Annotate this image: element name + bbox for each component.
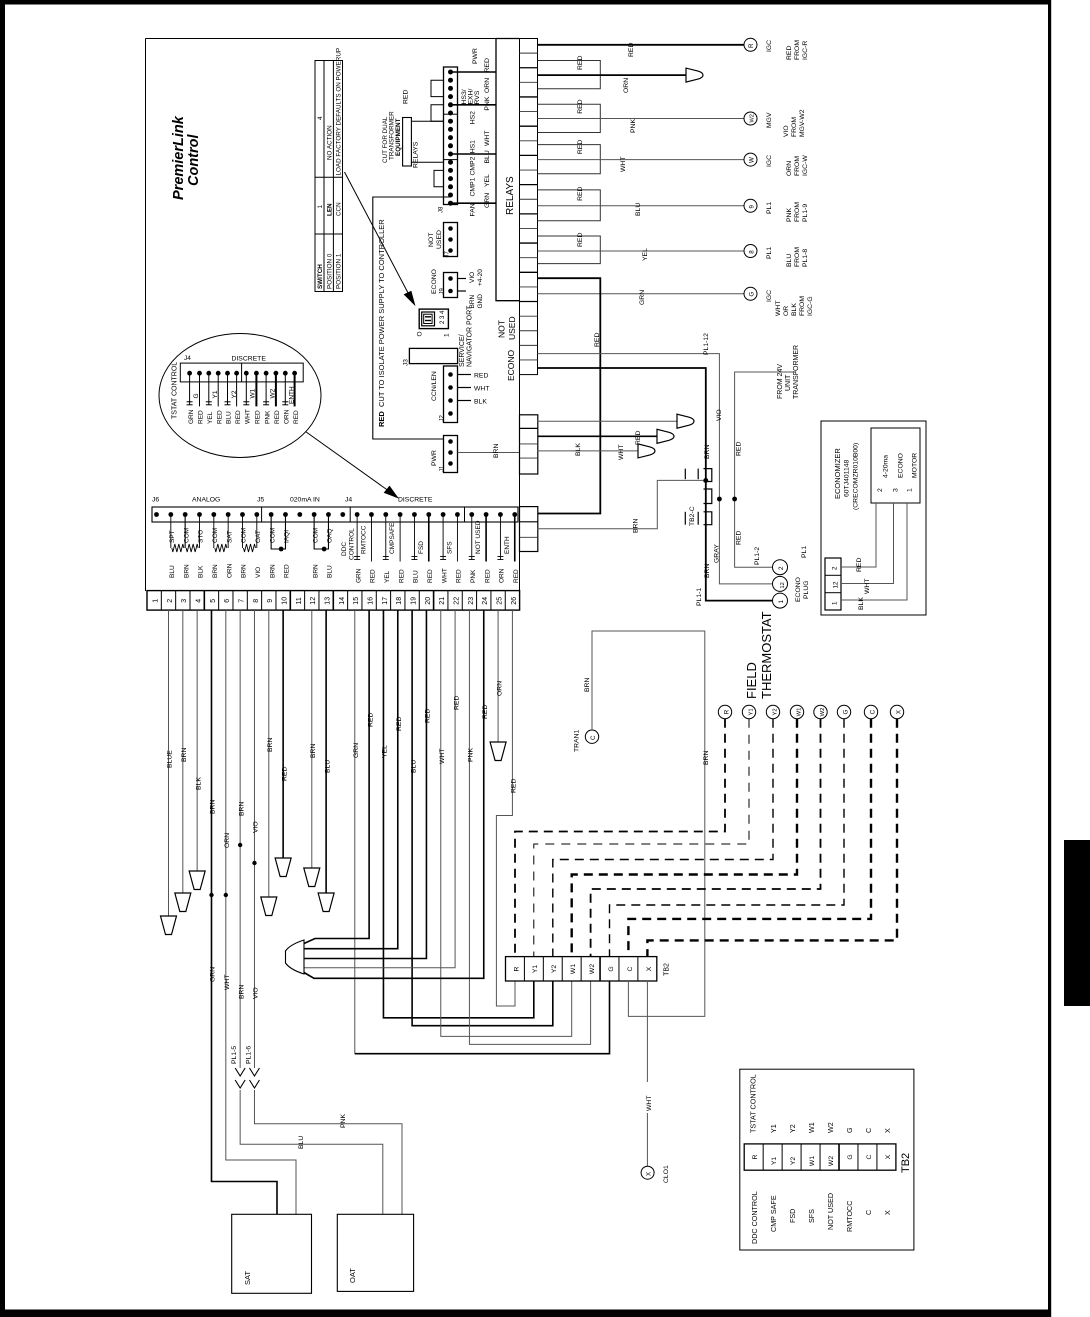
svg-text:25: 25 — [496, 597, 503, 605]
econo wire RED with wire nut — [538, 414, 695, 445]
svg-text:RVS: RVS — [474, 90, 481, 104]
svg-text:Y2: Y2 — [788, 1124, 797, 1133]
TB2 table terminal strip — [744, 1144, 912, 1173]
svg-text:PNK: PNK — [484, 96, 491, 110]
svg-text:RED: RED — [786, 46, 793, 60]
svg-text:G: G — [193, 393, 200, 398]
svg-text:BLK: BLK — [858, 597, 865, 610]
svg-text:R: R — [723, 709, 730, 714]
terminal wire 2 BLUE — [160, 610, 176, 934]
J8 pin function labels — [461, 48, 481, 216]
svg-text:CCN/LEN: CCN/LEN — [431, 371, 438, 401]
wire BRN from J1 to edge connector — [458, 444, 520, 458]
svg-text:SAT: SAT — [243, 1271, 252, 1285]
terminal wire 16 RED to harness — [304, 610, 374, 943]
svg-text:ORN: ORN — [786, 161, 793, 176]
svg-text:LEN: LEN — [326, 203, 333, 216]
discrete wire color labels — [355, 568, 520, 583]
svg-text:BLU: BLU — [169, 565, 176, 578]
svg-text:COM: COM — [312, 528, 319, 543]
terminal wire 4 BLK — [189, 610, 205, 889]
terminal wire 24 RED to harness — [304, 610, 489, 978]
svg-text:BRN: BRN — [238, 802, 245, 816]
analog/discrete input strip — [152, 497, 518, 523]
svg-text:COM: COM — [241, 528, 248, 543]
svg-text:W: W — [749, 157, 756, 163]
svg-text:HS1: HS1 — [470, 140, 477, 153]
svg-text:J9: J9 — [439, 288, 445, 295]
svg-text:FAN: FAN — [470, 203, 477, 216]
svg-text:TSTAT CONTROL: TSTAT CONTROL — [172, 362, 179, 419]
svg-text:W1: W1 — [809, 1156, 816, 1166]
svg-text:VIO: VIO — [783, 125, 790, 137]
svg-text:YEL: YEL — [207, 411, 214, 424]
svg-text:SFS: SFS — [447, 541, 454, 554]
svg-text:ENTH: ENTH — [504, 536, 511, 554]
svg-text:Y1: Y1 — [212, 390, 219, 398]
bubble wire color labels — [188, 409, 300, 424]
svg-text:TB2: TB2 — [664, 963, 671, 976]
input strip pins — [154, 512, 517, 517]
svg-text:THERMOSTAT: THERMOSTAT — [759, 611, 774, 699]
svg-text:RMTOCC: RMTOCC — [845, 1201, 854, 1232]
svg-text:8: 8 — [749, 250, 756, 254]
svg-text:W2: W2 — [269, 388, 276, 398]
svg-text:W2: W2 — [820, 708, 826, 717]
svg-text:NOT USED: NOT USED — [826, 1193, 835, 1230]
board edge connector strip block 3 — [520, 507, 538, 552]
svg-text:BRN: BRN — [210, 800, 217, 814]
terminal wire 21 WHT to TB2-W1 — [439, 610, 572, 1036]
svg-text:BRN: BRN — [183, 564, 190, 578]
terminal wire 20 RED to harness — [304, 610, 432, 958]
svg-text:OR: OR — [783, 306, 790, 316]
svg-text:9: 9 — [749, 205, 756, 209]
svg-text:J6: J6 — [152, 497, 159, 504]
econo wire BLK with wire nut — [538, 443, 656, 458]
svg-text:FSD: FSD — [418, 541, 425, 554]
svg-text:Control: Control — [186, 133, 202, 186]
bubble signal labels — [193, 386, 296, 404]
svg-text:GRN: GRN — [639, 290, 646, 305]
svg-text:BLK: BLK — [198, 565, 205, 578]
controller board outline — [146, 39, 497, 592]
svg-text:TB2-C: TB2-C — [689, 506, 696, 526]
svg-text:ECONO: ECONO — [898, 453, 905, 478]
svg-text:26: 26 — [511, 597, 518, 605]
RELAYS output section box — [496, 39, 520, 301]
svg-text:9: 9 — [267, 599, 274, 603]
relay jumper wires RED — [538, 56, 601, 264]
terminal wire 8 VIO PL1-6 PNK to OAT — [245, 610, 402, 1214]
svg-text:BLK: BLK — [195, 777, 202, 790]
svg-text:YEL: YEL — [642, 248, 649, 261]
svg-text:X: X — [883, 1128, 892, 1133]
svg-text:FROM: FROM — [794, 247, 801, 267]
svg-text:FROM: FROM — [791, 117, 798, 137]
svg-text:+4-20: +4-20 — [477, 269, 484, 286]
svg-text:6: 6 — [224, 599, 231, 603]
svg-text:SPT: SPT — [169, 530, 176, 543]
terminal wire 26 RED to TB2-R — [496, 610, 517, 1006]
svg-text:ORN: ORN — [284, 409, 291, 424]
svg-text:PNK: PNK — [630, 119, 637, 133]
svg-text:12: 12 — [780, 582, 786, 588]
svg-text:BRN: BRN — [703, 751, 710, 765]
svg-text:Y2: Y2 — [772, 708, 778, 715]
relay wire ORN with wire nut — [538, 68, 704, 93]
svg-text:CONTROL: CONTROL — [349, 528, 356, 560]
DIP switch setting table — [315, 48, 343, 292]
svg-text:RED: RED — [425, 709, 432, 723]
svg-text:DDC CONTROL: DDC CONTROL — [750, 1191, 759, 1244]
svg-text:WHT: WHT — [646, 1096, 653, 1111]
svg-text:RED: RED — [577, 99, 584, 113]
TB2 table DDC row labels — [750, 1191, 892, 1244]
svg-text:C: C — [864, 1128, 873, 1133]
svg-text:CUT TO ISOLATE POWER SUPPLY TO: CUT TO ISOLATE POWER SUPPLY TO CONTROLLE… — [377, 219, 386, 407]
svg-text:23: 23 — [468, 597, 475, 605]
svg-text:DISCRETE: DISCRETE — [398, 497, 433, 504]
svg-text:BRN: BRN — [212, 564, 219, 578]
svg-text:W2: W2 — [750, 114, 756, 122]
transformer terminal TRAN1 C — [574, 729, 599, 752]
svg-text:C: C — [627, 966, 634, 971]
terminal wire 6 ORN/WHT to SAT — [224, 610, 296, 1214]
svg-text:RED: RED — [513, 569, 520, 583]
svg-text:J4: J4 — [345, 497, 352, 504]
svg-text:CCN: CCN — [336, 202, 343, 216]
svg-text:BRN: BRN — [584, 678, 591, 692]
svg-text:IGC: IGC — [766, 155, 773, 167]
svg-text:2: 2 — [877, 488, 884, 492]
svg-text:YEL: YEL — [484, 174, 491, 187]
svg-text:16: 16 — [368, 597, 375, 605]
svg-text:R: R — [748, 43, 755, 48]
svg-text:USED: USED — [436, 230, 443, 249]
connector J3 — [403, 348, 458, 366]
svg-text:BRN: BRN — [238, 985, 245, 999]
svg-text:TB2: TB2 — [900, 1153, 912, 1173]
svg-text:RED: RED — [403, 90, 410, 104]
air quality sensor wires — [271, 515, 328, 552]
svg-text:YEL: YEL — [382, 745, 389, 758]
svg-text:CLO1: CLO1 — [663, 1165, 670, 1183]
svg-text:15: 15 — [353, 597, 360, 605]
terminal circle X CLO1 — [641, 1165, 670, 1183]
svg-text:BRN: BRN — [269, 564, 276, 578]
thermostat terminal R and field wire — [515, 705, 732, 956]
svg-text:COM: COM — [183, 528, 190, 543]
J2 wire stubs RED WHT BLK — [458, 373, 490, 406]
svg-text:IGC-W: IGC-W — [802, 155, 809, 176]
J8 wire color labels — [484, 58, 491, 208]
svg-text:ECONO: ECONO — [795, 577, 802, 602]
thermostat terminal Y2 and field wire — [553, 705, 780, 956]
harness arrow — [286, 940, 305, 974]
svg-text:CMP1: CMP1 — [470, 177, 477, 196]
svg-text:RED: RED — [484, 569, 491, 583]
OAT sensor box — [337, 1214, 413, 1291]
terminal wire 13 BLU — [318, 610, 334, 911]
svg-text:PL1: PL1 — [766, 247, 773, 259]
svg-text:C: C — [864, 1210, 873, 1215]
terminal wire 19 BLU to TB2-Y2 — [410, 610, 552, 1026]
svg-text:J2: J2 — [439, 415, 445, 422]
bubble pin wires and capacitors — [187, 373, 295, 406]
svg-text:X: X — [883, 1210, 892, 1215]
svg-text:RED: RED — [255, 410, 262, 424]
svg-text:WHT: WHT — [864, 579, 871, 594]
svg-text:2: 2 — [778, 566, 785, 570]
svg-text:BRN: BRN — [312, 564, 319, 578]
thermostat terminal G and field wire — [610, 705, 851, 956]
svg-text:GRN: GRN — [210, 967, 217, 982]
svg-text:13: 13 — [325, 597, 332, 605]
svg-text:Y2: Y2 — [231, 390, 238, 398]
svg-text:ORN: ORN — [499, 568, 506, 583]
power supply trace wire — [373, 197, 451, 439]
svg-text:1: 1 — [153, 599, 160, 603]
svg-text:PWR: PWR — [472, 48, 479, 64]
svg-text:4-20ma: 4-20ma — [883, 455, 890, 478]
svg-text:PL1-12: PL1-12 — [703, 333, 710, 355]
svg-text:PWR: PWR — [431, 450, 438, 466]
svg-text:RED: RED — [474, 373, 488, 380]
svg-text:PL1-8: PL1-8 — [802, 249, 809, 267]
svg-text:Y1: Y1 — [771, 1157, 778, 1166]
svg-text:4: 4 — [317, 116, 324, 120]
svg-text:DDC: DDC — [341, 542, 348, 556]
svg-text:DISCRETE: DISCRETE — [232, 356, 267, 363]
svg-text:8: 8 — [253, 599, 260, 603]
J8 output wires — [451, 72, 497, 203]
thermostat terminal X and field wire — [647, 705, 903, 956]
svg-text:PNK: PNK — [786, 208, 793, 222]
board edge connector strip block 2 — [520, 415, 538, 474]
svg-text:PNK: PNK — [264, 410, 271, 424]
board edge connector strip block 1 — [520, 39, 538, 375]
svg-text:VIO: VIO — [253, 821, 260, 833]
svg-text:RED: RED — [274, 410, 281, 424]
svg-text:CMP SAFE: CMP SAFE — [769, 1195, 778, 1232]
relay wire GRN to IGC-G — [538, 290, 745, 305]
analog thermistors — [171, 515, 257, 553]
leader arrow from table to DIP switch — [345, 172, 415, 305]
svg-text:RED: RED — [293, 410, 300, 424]
svg-text:WHT: WHT — [775, 301, 782, 316]
label FIELD THERMOSTAT — [744, 611, 774, 699]
svg-text:EQUIPMENT: EQUIPMENT — [395, 118, 402, 156]
svg-text:W1: W1 — [807, 1122, 816, 1133]
svg-text:WHT: WHT — [474, 386, 489, 393]
svg-text:GRN: GRN — [353, 743, 360, 758]
economizer motor wires — [841, 503, 907, 610]
svg-text:RED: RED — [370, 569, 377, 583]
svg-text:W2: W2 — [828, 1156, 835, 1166]
econo section wires PL1-12 and plug — [538, 333, 773, 584]
svg-text:TSTAT CONTROL: TSTAT CONTROL — [749, 1074, 758, 1133]
svg-text:POSITION 1: POSITION 1 — [336, 253, 343, 289]
cut-for-dual-transformer jumper — [382, 90, 444, 168]
connector TB2-C brackets — [685, 469, 712, 526]
svg-text:1: 1 — [778, 600, 785, 604]
svg-text:19: 19 — [411, 597, 418, 605]
svg-text:G: G — [749, 292, 756, 297]
svg-text:ANALOG: ANALOG — [192, 497, 220, 504]
svg-text:21: 21 — [439, 597, 446, 605]
terminal circle W2 MGV — [744, 109, 806, 137]
svg-text:FROM 24V: FROM 24V — [777, 364, 784, 399]
svg-text:Y2: Y2 — [551, 965, 558, 974]
svg-text:VIO: VIO — [255, 567, 262, 578]
svg-text:14: 14 — [339, 597, 346, 605]
thermostat terminal C and field wire — [628, 705, 877, 956]
svg-text:BRN: BRN — [469, 294, 476, 308]
svg-text:VIO: VIO — [469, 272, 476, 283]
svg-text:YEL: YEL — [384, 570, 391, 583]
svg-text:TRAN1: TRAN1 — [574, 729, 581, 752]
svg-text:ORN: ORN — [484, 78, 491, 93]
svg-text:BLK: BLK — [575, 443, 582, 456]
svg-text:2: 2 — [832, 566, 839, 570]
svg-text:PremierLink: PremierLink — [171, 115, 187, 200]
svg-text:LOAD FACTORY DEFAULTS ON POWER: LOAD FACTORY DEFAULTS ON POWERUP — [336, 48, 343, 176]
svg-text:BLU: BLU — [327, 565, 334, 578]
svg-text:2 3 4: 2 3 4 — [440, 310, 446, 324]
econo wire BRN PL1-1 (line A) — [538, 368, 773, 606]
svg-text:CMPSAFE: CMPSAFE — [389, 522, 396, 554]
svg-text:10: 10 — [282, 597, 289, 605]
svg-text:IGC: IGC — [766, 40, 773, 52]
svg-text:PL1: PL1 — [766, 202, 773, 214]
svg-text:WHT: WHT — [484, 131, 491, 146]
svg-text:PL1-5: PL1-5 — [231, 1046, 238, 1064]
svg-text:SWITCH: SWITCH — [317, 264, 324, 289]
svg-text:RED: RED — [482, 705, 489, 719]
thermostat terminal W1 and field wire — [572, 705, 804, 956]
terminal wire 3 BRN — [175, 610, 191, 911]
J8 pin pair brackets — [431, 80, 444, 187]
svg-text:12: 12 — [833, 581, 840, 588]
svg-text:G: G — [842, 709, 849, 714]
svg-text:RED: RED — [594, 333, 601, 347]
svg-text:ORN: ORN — [496, 681, 503, 696]
svg-text:PNK: PNK — [468, 748, 475, 762]
svg-text:NAVIGATOR PORT: NAVIGATOR PORT — [467, 305, 474, 367]
svg-text:7: 7 — [239, 599, 246, 603]
svg-text:VIO: VIO — [253, 987, 260, 999]
svg-text:RED: RED — [281, 767, 288, 781]
svg-text:WHT: WHT — [618, 445, 625, 460]
svg-text:NOT: NOT — [428, 233, 435, 247]
terminal wire 10 RED — [275, 610, 291, 876]
svg-text:RED: RED — [736, 531, 743, 545]
connector J7 NOT USED — [428, 223, 458, 258]
svg-text:RED: RED — [216, 410, 223, 424]
svg-text:OAT: OAT — [348, 1268, 357, 1283]
svg-text:FIELD: FIELD — [744, 662, 759, 699]
svg-text:STO: STO — [198, 530, 205, 543]
svg-text:ORN: ORN — [224, 833, 231, 848]
svg-text:BLU: BLU — [484, 150, 491, 163]
svg-text:RED: RED — [396, 717, 403, 731]
svg-text:BLU: BLU — [226, 411, 233, 424]
svg-text:W1: W1 — [570, 964, 577, 974]
svg-text:BRN: BRN — [241, 564, 248, 578]
svg-text:ORN: ORN — [226, 563, 233, 578]
svg-text:ECONO: ECONO — [431, 269, 438, 294]
econo wire WHT with wire nut — [538, 429, 675, 460]
analog sensor labels — [169, 528, 334, 543]
svg-text:22: 22 — [453, 597, 460, 605]
svg-text:MGV: MGV — [766, 112, 773, 128]
svg-text:PLUG: PLUG — [803, 580, 810, 599]
J8 pins — [448, 70, 453, 206]
svg-text:BLUE: BLUE — [167, 750, 174, 768]
connector J1 PWR — [431, 436, 458, 473]
svg-text:GRN: GRN — [355, 568, 362, 583]
thermostat terminal W2 and field wire — [591, 705, 828, 956]
wire RED from 24V transformer (line C) — [735, 372, 796, 567]
svg-text:60TJ401148: 60TJ401148 — [844, 459, 851, 497]
analog wire color labels — [169, 563, 334, 578]
svg-text:GRN: GRN — [484, 193, 491, 208]
svg-text:GND: GND — [477, 294, 484, 309]
svg-text:BRN: BRN — [633, 519, 640, 533]
svg-text:HS2: HS2 — [470, 111, 477, 124]
svg-text:BLU: BLU — [324, 760, 331, 773]
svg-text:WHT: WHT — [224, 975, 231, 990]
ECONOMIZER assembly box — [821, 421, 926, 615]
terminal wire 18 RED to harness — [304, 610, 403, 949]
svg-text:WHT: WHT — [439, 749, 446, 764]
svg-text:FROM: FROM — [799, 296, 806, 316]
svg-text:RELAYS: RELAYS — [413, 141, 420, 168]
svg-text:RED: RED — [284, 564, 291, 578]
svg-text:PNK: PNK — [470, 569, 477, 583]
svg-text:R: R — [513, 966, 520, 971]
svg-text:RED: RED — [198, 410, 205, 424]
svg-text:RELAYS: RELAYS — [505, 176, 516, 215]
svg-text:RED: RED — [635, 431, 642, 445]
bubble connector J4 strip — [172, 355, 304, 419]
svg-text:PNK: PNK — [340, 1114, 347, 1128]
terminal circle R IGC — [744, 38, 809, 60]
svg-text:ENTH: ENTH — [289, 386, 296, 404]
svg-text:020mA IN: 020mA IN — [290, 497, 320, 504]
svg-text:17: 17 — [382, 597, 389, 605]
terminal wire 25 ORN — [490, 610, 506, 760]
svg-text:RED: RED — [577, 56, 584, 70]
title PremierLink Control — [171, 115, 202, 200]
board right edge line — [519, 375, 521, 591]
terminal circle 8 PL1 — [744, 245, 809, 268]
relay wire YEL to PL1-8 — [538, 248, 745, 261]
svg-text:R: R — [752, 1154, 759, 1159]
terminal wire 5 BRN/GRN to SAT — [209, 610, 277, 1214]
binder tab mark — [1064, 840, 1090, 1006]
svg-text:WHT: WHT — [245, 409, 252, 424]
leader arrow from bubble to J4 DISCRETE — [306, 432, 398, 498]
svg-text:GRAY: GRAY — [714, 544, 721, 563]
label DDC CONTROL — [341, 528, 356, 560]
svg-text:IAQI: IAQI — [284, 530, 291, 543]
terminal circle G IGC — [744, 287, 814, 316]
junction dots TB2-C — [703, 478, 737, 501]
detail bubble ellipse — [159, 334, 321, 458]
svg-text:NOT: NOT — [497, 320, 507, 338]
